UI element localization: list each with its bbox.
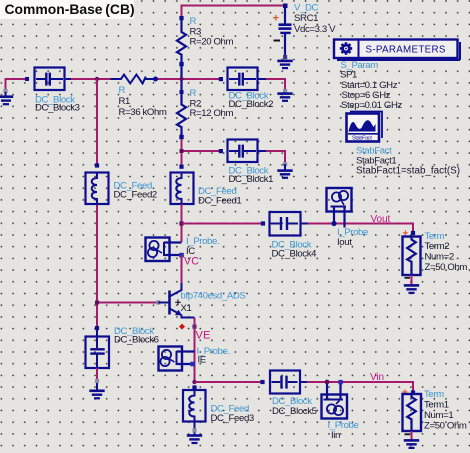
current probe IC	[146, 236, 220, 261]
svg-text:R=20 Ohm: R=20 Ohm	[190, 37, 234, 48]
svg-text:X1: X1	[181, 303, 192, 314]
node junction at DC_Block1 branch	[180, 149, 184, 153]
svg-text:DC_Feed2: DC_Feed2	[114, 189, 157, 200]
svg-text:StabFact: StabFact	[352, 136, 372, 142]
svg-text:S-PARAMETERS: S-PARAMETERS	[366, 44, 446, 55]
svg-text:SP1: SP1	[340, 69, 357, 80]
svg-text:R: R	[190, 88, 197, 99]
ground at DC_Block6	[89, 368, 104, 398]
wire emitter to Vin rail	[192, 318, 196, 383]
svg-text:R: R	[119, 85, 126, 96]
node crossing main rail	[180, 77, 184, 81]
transistor X1 bfp740esd_ADS	[156, 283, 245, 318]
node junction below R2	[179, 135, 183, 139]
wire branch DC_Feed2 column	[97, 79, 158, 328]
svg-text:DC_Block5: DC_Block5	[272, 406, 317, 417]
svg-text:VC: VC	[184, 256, 199, 268]
node top rail / V_DC pin	[283, 4, 288, 9]
capacitor DC_Block5	[260, 371, 316, 417]
svg-text:Common-Base (CB): Common-Base (CB)	[5, 1, 135, 17]
svg-text:Iout: Iout	[337, 237, 352, 248]
ground at DC_Block2 output	[277, 89, 292, 101]
port Term1	[402, 388, 467, 440]
node junction base branch	[95, 301, 99, 305]
capacitor DC_Block1	[219, 140, 273, 185]
svg-text:Vout: Vout	[371, 214, 391, 225]
inductor DC_Feed1	[171, 165, 242, 207]
title Common-Base (CB)	[0, 0, 135, 19]
svg-text:R=12 Ohm: R=12 Ohm	[190, 108, 234, 119]
svg-text:Vin: Vin	[370, 372, 384, 383]
capacitor DC_Block2	[219, 68, 273, 110]
capacitor DC_Block3	[25, 68, 80, 114]
svg-text:DC_Block3: DC_Block3	[35, 102, 80, 113]
svg-text:R=36 kOhm: R=36 kOhm	[119, 107, 167, 118]
measurement StabFact1 icon	[347, 112, 383, 142]
svg-text:R1: R1	[119, 96, 131, 107]
svg-text:DC_Block6: DC_Block6	[114, 334, 159, 345]
svg-text:+: +	[273, 13, 279, 25]
svg-text:Term1: Term1	[424, 400, 449, 411]
wire branch to DC_Block1	[182, 151, 286, 164]
measurement StabFact1 text	[356, 146, 460, 177]
svg-text:Num=2: Num=2	[425, 251, 454, 262]
S_Param SP1 parameter text	[340, 60, 403, 111]
svg-text:DC_Block2: DC_Block2	[229, 99, 274, 110]
resistor R3	[177, 16, 234, 62]
node junction R3/R2	[179, 62, 183, 66]
svg-text:Term2: Term2	[425, 241, 450, 252]
svg-text:DC_Block4: DC_Block4	[272, 248, 318, 259]
node junction Vin branch	[192, 380, 196, 384]
wire DC_Feed1 to IC probe	[181, 204, 183, 242]
svg-text:Num=1: Num=1	[424, 410, 453, 421]
svg-text:DC_Feed1: DC_Feed1	[198, 195, 241, 206]
resistor R2	[177, 66, 234, 135]
node junction Vout branch	[179, 221, 183, 225]
svg-text:Z=50 Ohm: Z=50 Ohm	[425, 262, 468, 273]
ground at DC_Feed3	[187, 422, 202, 444]
ground at V_DC	[277, 55, 292, 68]
current probe Iin	[322, 380, 359, 441]
current probe Iout	[327, 188, 368, 248]
inductor DC_Feed2	[86, 163, 157, 204]
capacitor DC_Block4	[261, 212, 317, 259]
simulation block S-PARAMETERS	[334, 40, 460, 61]
svg-text:Step=0.01 GHz: Step=0.01 GHz	[341, 100, 403, 111]
svg-text:DC_Block1: DC_Block1	[229, 174, 274, 185]
svg-text:VE: VE	[196, 330, 211, 342]
wire IC probe to transistor collector	[181, 255, 183, 284]
ground at Term1	[404, 440, 419, 448]
svg-text:bfp740esd_ADS: bfp740esd_ADS	[181, 290, 246, 301]
svg-text:IE: IE	[198, 354, 206, 365]
svg-text:Iin: Iin	[331, 430, 340, 441]
port Term2	[403, 229, 468, 285]
wire Vin rail	[195, 382, 414, 393]
wire Vout rail	[182, 224, 414, 234]
voltage source SRC1 V_DC	[273, 3, 336, 58]
wire main input rail y=79	[6, 79, 286, 91]
ground at Term2	[404, 285, 419, 293]
svg-text:DC_Feed3: DC_Feed3	[211, 413, 254, 424]
inductor DC_Feed3	[183, 385, 254, 423]
resistor R1	[111, 75, 167, 119]
node junction at R1 output	[153, 77, 158, 82]
ground at DC_Block1 output	[277, 162, 292, 178]
svg-text:Z=50 Ohm: Z=50 Ohm	[424, 421, 467, 432]
svg-text:Vdc=3.3 V: Vdc=3.3 V	[294, 24, 336, 35]
svg-text:SRC1: SRC1	[294, 13, 318, 24]
current probe IE	[159, 346, 230, 371]
ground input (left)	[0, 89, 13, 104]
svg-text:StabFact1=stab_fact(S): StabFact1=stab_fact(S)	[356, 165, 460, 176]
svg-text:Term: Term	[424, 389, 444, 400]
node ESD marker (red diamond)	[179, 324, 185, 330]
wire trunk R2 to DC_Feed1	[181, 135, 183, 167]
wire top rail from R3 to V_DC	[182, 6, 286, 18]
node junction feed2 branch	[95, 77, 99, 81]
capacitor DC_Block6 (vertical)	[86, 326, 159, 368]
